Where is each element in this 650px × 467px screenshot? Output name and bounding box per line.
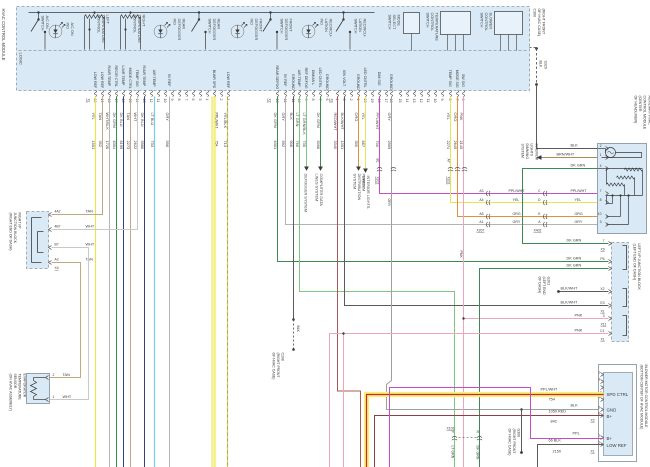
svg-text:L/AIR TEMP: L/AIR TEMP — [121, 66, 125, 87]
svg-text:G306: G306 — [517, 429, 521, 438]
svg-text:8: 8 — [311, 99, 315, 101]
wire DK BLU 5986 — [144, 97, 146, 467]
svg-text:12: 12 — [283, 99, 287, 103]
svg-text:B7: B7 — [55, 243, 59, 247]
svg-text:3: 3 — [342, 99, 346, 101]
svg-text:7: 7 — [600, 189, 602, 193]
svg-text:X202: X202 — [376, 177, 380, 185]
svg-text:13: 13 — [142, 99, 146, 103]
wire DK GRN aux pin 4 to junction pin 7 — [523, 169, 609, 244]
svg-text:BLOWER MOTOR CONTROL MODULE: BLOWER MOTOR CONTROL MODULE — [644, 365, 648, 429]
wire WHT 2622 to junction 4B7 — [52, 97, 138, 230]
svg-text:(RIGHT END OF DASH): (RIGHT END OF DASH) — [9, 213, 13, 251]
svg-text:X2: X2 — [600, 287, 604, 291]
svg-text:TAN: TAN — [86, 258, 94, 262]
svg-text:CONTROL: CONTROL — [484, 13, 488, 32]
svg-text:X11: X11 — [601, 323, 607, 327]
svg-text:DIMMING: DIMMING — [525, 144, 529, 160]
wire DK GRN third to junction — [480, 269, 609, 467]
svg-text:MODE: MODE — [397, 15, 401, 27]
svg-text:BLK/WHT: BLK/WHT — [561, 301, 579, 305]
svg-text:15: 15 — [128, 99, 132, 103]
svg-text:10: 10 — [163, 99, 167, 103]
wire ORG 300 to power distribution — [358, 97, 360, 167]
svg-text:SW SIG: SW SIG — [461, 74, 465, 87]
svg-text:X4: X4 — [55, 266, 59, 270]
LED front defogger indicator — [231, 25, 244, 38]
svg-text:5V REF: 5V REF — [283, 74, 287, 87]
svg-text:1: 1 — [53, 395, 55, 399]
svg-text:17: 17 — [384, 99, 388, 103]
svg-text:LOW REF: LOW REF — [100, 72, 104, 89]
svg-text:9: 9 — [170, 99, 174, 101]
svg-text:17: 17 — [114, 99, 118, 103]
svg-text:SELECT: SELECT — [392, 15, 396, 30]
svg-text:X1: X1 — [601, 310, 605, 314]
svg-text:E3: E3 — [600, 301, 604, 305]
svg-text:3: 3 — [598, 378, 600, 382]
svg-text:R/AIR TEMP: R/AIR TEMP — [107, 66, 111, 87]
svg-text:2622: 2622 — [133, 141, 138, 150]
wire BLK/WHT 1051 to junction E3 — [345, 97, 609, 306]
svg-text:REAR DEFOG: REAR DEFOG — [275, 66, 279, 90]
svg-text:300: 300 — [354, 141, 359, 148]
svg-text:4B7: 4B7 — [55, 225, 61, 229]
svg-text:1551: 1551 — [91, 141, 96, 150]
svg-text:LOW REF: LOW REF — [226, 72, 230, 89]
wire DK GRN 6301 to junction P6 — [278, 97, 609, 262]
wire LT GRN 766 corner to bottom — [300, 97, 455, 467]
svg-text:18: 18 — [377, 99, 381, 103]
svg-text:SWITCH: SWITCH — [41, 16, 45, 31]
switch A/C ON — [37, 11, 39, 13]
wire PPL/WHT 754 highlighted — [211, 97, 216, 467]
svg-text:10: 10 — [297, 99, 301, 103]
svg-text:YEL: YEL — [575, 198, 582, 202]
svg-text:TEMPERATURE: TEMPERATURE — [18, 374, 22, 401]
svg-text:DEFOGGER: DEFOGGER — [254, 19, 258, 41]
svg-text:X402: X402 — [534, 229, 542, 233]
svg-text:X2: X2 — [268, 99, 272, 103]
svg-text:A1: A1 — [479, 220, 483, 224]
svg-text:(LEFT END: (LEFT END — [542, 277, 546, 295]
wire BLK to aux module pin 2 — [537, 85, 609, 149]
svg-text:PPL/WHT: PPL/WHT — [509, 189, 526, 193]
svg-text:A/C ON: A/C ON — [45, 16, 49, 29]
LED rear defogger indicator — [154, 25, 167, 38]
svg-text:AIR TEMP: AIR TEMP — [297, 70, 301, 88]
svg-text:WHT/BLK: WHT/BLK — [105, 113, 110, 131]
wire YEL 2274 to aux module pin 8 — [451, 97, 609, 203]
svg-text:C300: C300 — [533, 9, 537, 18]
svg-text:ORG: ORG — [513, 212, 521, 216]
svg-text:DIM SIG: DIM SIG — [377, 72, 381, 86]
svg-text:FRONT: FRONT — [259, 19, 263, 33]
svg-text:16: 16 — [121, 99, 125, 103]
svg-text:GRY: GRY — [575, 220, 583, 224]
svg-text:PPL/WHT: PPL/WHT — [375, 113, 380, 131]
svg-text:598: 598 — [165, 141, 170, 148]
svg-text:X2: X2 — [591, 419, 595, 423]
wire DK BLU 6199 — [123, 97, 125, 467]
svg-text:DEFOGGER: DEFOGGER — [212, 19, 216, 41]
svg-text:X202: X202 — [447, 177, 451, 185]
svg-text:7: 7 — [603, 239, 605, 243]
wire YEL/BLK 713 — [227, 97, 229, 467]
svg-text:13: 13 — [412, 99, 416, 103]
svg-text:A3: A3 — [479, 189, 483, 193]
svg-text:(CENTER: (CENTER — [638, 96, 642, 112]
svg-text:YEL: YEL — [91, 113, 96, 121]
svg-text:2645: 2645 — [453, 141, 458, 150]
svg-text:DK GRN: DK GRN — [567, 239, 582, 243]
svg-text:G201: G201 — [547, 277, 551, 286]
left I/P junction block — [612, 243, 629, 342]
svg-text:OF DASH): OF DASH) — [538, 277, 542, 294]
svg-text:LATION: LATION — [358, 19, 362, 33]
svg-text:IND: IND — [66, 23, 70, 30]
svg-text:733: 733 — [150, 141, 155, 148]
svg-text:LOW REF: LOW REF — [607, 443, 627, 448]
svg-text:2: 2 — [349, 99, 353, 101]
LED recirculation indicator — [302, 25, 315, 38]
svg-text:P6: P6 — [600, 257, 604, 261]
svg-text:DEFOGGER: DEFOGGER — [284, 19, 288, 41]
svg-text:GROUND: GROUND — [325, 74, 329, 90]
HVAC control module U1 — [17, 7, 530, 91]
svg-text:5V REF: 5V REF — [167, 74, 171, 87]
svg-text:19: 19 — [370, 99, 374, 103]
svg-text:6: 6 — [325, 99, 329, 101]
svg-text:1: 1 — [600, 153, 602, 157]
svg-text:INTERIOR: INTERIOR — [534, 144, 538, 161]
svg-text:10: 10 — [433, 99, 437, 103]
svg-text:PNK: PNK — [575, 314, 583, 318]
svg-text:15: 15 — [398, 99, 402, 103]
svg-text:5986: 5986 — [140, 141, 145, 150]
svg-text:REF DEFOG: REF DEFOG — [304, 68, 308, 89]
svg-text:RIGHT: RIGHT — [142, 15, 146, 27]
svg-text:LATION: LATION — [324, 19, 328, 33]
svg-text:R/AIR TEMP: R/AIR TEMP — [142, 66, 146, 87]
svg-text:EVAPORATOR: EVAPORATOR — [22, 374, 26, 398]
svg-text:SENSOR: SENSOR — [13, 374, 17, 389]
svg-text:TAN: TAN — [126, 113, 131, 121]
wire LT GRN/BLK 735 to defogger system — [306, 97, 308, 167]
svg-text:TEMPERATURE: TEMPERATURE — [101, 15, 105, 44]
svg-text:1050 RED: 1050 RED — [549, 410, 567, 414]
svg-text:13: 13 — [275, 99, 279, 103]
switch recirculation — [342, 11, 344, 13]
svg-text:9: 9 — [440, 99, 444, 101]
wire LT BLU 733 — [154, 97, 156, 467]
svg-text:YEL/BLK: YEL/BLK — [223, 113, 228, 129]
svg-text:REAR: REAR — [182, 19, 186, 30]
svg-text:6199: 6199 — [119, 141, 124, 150]
svg-text:ORG: ORG — [575, 212, 583, 216]
svg-text:MODE SIG: MODE SIG — [455, 70, 459, 88]
svg-text:DK GRN: DK GRN — [273, 113, 278, 128]
svg-text:PNK: PNK — [459, 113, 464, 121]
svg-text:TEMPERATURE: TEMPERATURE — [435, 13, 439, 42]
right I/P junction block — [27, 212, 49, 269]
lamp in aux module — [606, 148, 616, 158]
svg-text:6304: 6304 — [112, 141, 117, 150]
wire DK GRN 5066 to computer data lines — [320, 97, 322, 167]
svg-text:20: 20 — [363, 99, 367, 103]
svg-text:10: 10 — [598, 212, 602, 216]
svg-text:SWITCH: SWITCH — [208, 19, 212, 34]
svg-text:7: 7 — [455, 99, 459, 101]
svg-text:4: 4 — [600, 164, 602, 168]
svg-text:4: 4 — [205, 99, 209, 101]
svg-text:YEL: YEL — [446, 113, 451, 121]
inline connector X202 — [377, 167, 382, 171]
svg-text:GROUND: GROUND — [356, 74, 360, 90]
svg-text:3: 3 — [603, 314, 605, 318]
svg-text:OF HVAC CASE): OF HVAC CASE) — [508, 429, 512, 456]
svg-text:3340: 3340 — [333, 141, 338, 150]
svg-text:6: 6 — [461, 99, 465, 101]
svg-text:352: 352 — [98, 141, 103, 148]
potentiometer left temperature control — [93, 11, 95, 13]
internal bus wire — [29, 12, 375, 14]
svg-text:842: 842 — [551, 420, 557, 424]
svg-text:IGN VOLT: IGN VOLT — [342, 70, 346, 87]
svg-text:CONTROL MODULE: CONTROL MODULE — [643, 96, 647, 130]
svg-text:SWITCH: SWITCH — [480, 13, 484, 28]
svg-text:(RIGHT FRONT: (RIGHT FRONT — [542, 9, 546, 35]
connector C300 black wire — [530, 47, 537, 49]
svg-text:8: 8 — [177, 99, 181, 101]
svg-text:AIR TEMP: AIR TEMP — [152, 70, 156, 88]
svg-text:FRONT: FRONT — [289, 19, 293, 33]
wire PPL/WHT 700 to aux module pin 7 — [380, 97, 609, 194]
svg-text:DK GRN: DK GRN — [476, 446, 480, 460]
svg-text:1051: 1051 — [340, 141, 345, 150]
svg-text:(RIGHT FRONT: (RIGHT FRONT — [276, 353, 280, 379]
svg-text:PPL/WHT: PPL/WHT — [541, 388, 559, 392]
svg-text:DK GRN: DK GRN — [112, 113, 117, 128]
wire BLK 908 with inline connector C208 — [293, 97, 295, 320]
svg-text:(LEFT END OF DASH): (LEFT END OF DASH) — [633, 244, 637, 281]
svg-text:SYSTEM: SYSTEM — [353, 174, 357, 190]
svg-text:TAN: TAN — [98, 113, 103, 121]
svg-text:(RIGHT FRONT: (RIGHT FRONT — [512, 429, 516, 455]
svg-text:BLK: BLK — [571, 404, 579, 408]
svg-text:2: 2 — [53, 373, 55, 377]
svg-text:7: 7 — [184, 99, 188, 101]
svg-text:16: 16 — [389, 99, 393, 103]
svg-text:LINES SYSTEM: LINES SYSTEM — [315, 174, 319, 202]
wire PNK branch — [343, 334, 345, 467]
svg-text:DK GRN: DK GRN — [567, 264, 582, 268]
logic sub-block — [19, 50, 528, 52]
svg-text:700: 700 — [375, 141, 380, 148]
svg-text:2: 2 — [219, 99, 223, 101]
svg-text:PPL/WHT: PPL/WHT — [214, 113, 218, 130]
svg-text:66 BLK: 66 BLK — [549, 439, 562, 443]
evaporator temperature sensor RT1 — [27, 374, 50, 404]
svg-text:2: 2 — [600, 144, 602, 148]
svg-text:BLK: BLK — [296, 326, 300, 333]
svg-text:7: 7 — [318, 99, 322, 101]
svg-text:DEFOGGER: DEFOGGER — [177, 19, 181, 41]
svg-text:2150: 2150 — [553, 450, 561, 454]
svg-text:592: 592 — [281, 141, 286, 148]
svg-text:HVAC CONTROL MODULE: HVAC CONTROL MODULE — [1, 9, 6, 61]
svg-text:B+: B+ — [607, 414, 613, 419]
svg-text:11: 11 — [156, 99, 160, 103]
wire TAN 352 to junction 4A2 — [52, 97, 103, 215]
svg-text:12: 12 — [419, 99, 423, 103]
svg-text:COMPUTER DATA: COMPUTER DATA — [319, 174, 323, 207]
svg-text:BLK: BLK — [539, 61, 543, 68]
svg-text:INTERIOR LIGHTS: INTERIOR LIGHTS — [366, 176, 370, 209]
auxiliary HVAC control module U2 — [598, 144, 647, 234]
svg-text:TEMPERATURE: TEMPERATURE — [137, 15, 141, 44]
svg-text:S329: S329 — [544, 61, 548, 69]
resistor network in aux module — [625, 168, 643, 171]
svg-text:DEFOGGER SYSTEM: DEFOGGER SYSTEM — [304, 174, 308, 212]
svg-text:5: 5 — [198, 99, 202, 101]
svg-text:DIM/AN L: DIM/AN L — [311, 70, 315, 86]
svg-text:BLOWER: BLOWER — [489, 13, 493, 30]
svg-text:BLWR SPD: BLWR SPD — [212, 70, 216, 89]
svg-text:BLK: BLK — [571, 144, 579, 148]
svg-text:YEL: YEL — [361, 113, 366, 121]
svg-text:YEL: YEL — [513, 198, 520, 202]
svg-text:6: 6 — [598, 412, 600, 416]
connector X207 — [486, 191, 490, 196]
svg-text:SYSTEM: SYSTEM — [362, 176, 366, 192]
svg-text:GRY: GRY — [513, 220, 521, 224]
svg-text:BLK/WHT: BLK/WHT — [340, 113, 345, 131]
svg-text:PNK: PNK — [575, 329, 583, 333]
wire PPL 66 to B+ — [390, 388, 604, 467]
wire YEL 687 to interior lights — [365, 97, 367, 169]
svg-text:RED/WHT: RED/WHT — [333, 113, 338, 132]
svg-text:2273: 2273 — [126, 141, 131, 150]
svg-text:4A2: 4A2 — [55, 210, 61, 214]
svg-text:1: 1 — [598, 434, 600, 438]
svg-text:GROUND: GROUND — [389, 74, 393, 90]
wire GRY 592 to aux module pin 3 — [286, 97, 609, 225]
wire WHT/BLK 1726 — [109, 97, 111, 467]
connector X103 — [452, 436, 457, 440]
svg-text:LOW REF: LOW REF — [93, 72, 97, 89]
svg-text:LED CNTRL: LED CNTRL — [318, 68, 322, 88]
svg-text:735: 735 — [302, 141, 307, 148]
svg-text:14: 14 — [135, 99, 139, 103]
svg-text:OF HVAC CASE): OF HVAC CASE) — [537, 9, 541, 37]
svg-text:PPL: PPL — [573, 432, 580, 436]
wire YEL 1551 — [95, 97, 97, 467]
svg-text:9: 9 — [304, 99, 308, 101]
svg-text:908: 908 — [289, 141, 294, 148]
svg-text:(BOTTOM CENTER OF HVAC MODULE): (BOTTOM CENTER OF HVAC MODULE) — [640, 365, 644, 430]
svg-text:OF HEADLINER): OF HEADLINER) — [634, 96, 638, 124]
svg-text:TAN: TAN — [63, 373, 71, 377]
svg-text:C208: C208 — [281, 353, 285, 361]
svg-text:A2: A2 — [55, 258, 59, 262]
svg-text:CONTROL: CONTROL — [133, 15, 137, 34]
wire PPL/WHT 754 highlighted to SPD CTRL — [367, 395, 604, 467]
svg-text:SWITCH: SWITCH — [388, 15, 392, 30]
potentiometer right temperature control — [129, 11, 131, 13]
svg-text:X1: X1 — [591, 450, 595, 454]
svg-text:LT GRN: LT GRN — [451, 446, 455, 459]
svg-text:18: 18 — [107, 99, 111, 103]
svg-text:SYSTEM: SYSTEM — [521, 144, 525, 158]
svg-text:WHT: WHT — [86, 225, 95, 229]
wire ORG 2645 to aux module pin 10 — [458, 97, 609, 217]
svg-text:SWITCH: SWITCH — [280, 19, 284, 34]
wire GRY 2909 to blower GND — [387, 97, 599, 410]
svg-text:12: 12 — [149, 99, 153, 103]
svg-text:1: 1 — [356, 99, 360, 101]
svg-text:11: 11 — [426, 99, 430, 103]
svg-text:CONTROL: CONTROL — [430, 13, 434, 32]
svg-text:A7: A7 — [447, 159, 451, 163]
wire GRY 598 — [169, 97, 171, 467]
svg-text:WHT: WHT — [86, 243, 95, 247]
connector X402 — [543, 191, 547, 196]
svg-text:TEMP SIG: TEMP SIG — [448, 70, 452, 87]
svg-text:DK GRN: DK GRN — [571, 164, 586, 168]
blower motor control module U3 — [599, 365, 637, 462]
wire BLK/WHT ground splice — [559, 291, 609, 293]
wire PNK C1 from bottom — [330, 334, 609, 467]
svg-text:PNK: PNK — [459, 251, 463, 259]
svg-text:8: 8 — [448, 99, 452, 101]
wire RED/WHT 3340 — [338, 97, 361, 467]
svg-text:SPD CTRL: SPD CTRL — [607, 392, 629, 397]
svg-text:754: 754 — [549, 398, 555, 402]
svg-text:OF HVAC CASE): OF HVAC CASE) — [272, 353, 276, 380]
svg-text:LEFT I/P JUNCTION BLOCK: LEFT I/P JUNCTION BLOCK — [637, 244, 641, 291]
svg-text:GRY: GRY — [281, 113, 286, 122]
svg-text:JUNCTION BLOCK: JUNCTION BLOCK — [13, 213, 17, 244]
svg-text:14: 14 — [405, 99, 409, 103]
svg-text:DISTRIBUTION: DISTRIBUTION — [357, 174, 361, 201]
wire TAN 2273 — [130, 97, 132, 467]
switch front defogger — [269, 11, 271, 13]
svg-text:PPL/WHT: PPL/WHT — [571, 189, 588, 193]
svg-text:ORG: ORG — [453, 113, 458, 122]
svg-text:C1: C1 — [600, 329, 604, 333]
svg-text:713: 713 — [223, 141, 228, 148]
svg-text:2145: 2145 — [459, 141, 464, 150]
svg-text:DK GRN: DK GRN — [567, 257, 582, 261]
svg-text:DK BLU: DK BLU — [140, 113, 145, 127]
wire PNK 2145 to junction pin 3 — [463, 97, 465, 467]
wire BRN/WHT to interior lights dimming system — [537, 157, 609, 159]
svg-text:687: 687 — [361, 141, 366, 148]
svg-text:20: 20 — [93, 99, 97, 103]
svg-text:IND: IND — [250, 19, 254, 26]
svg-text:(ON HVAC ASSEMBLY): (ON HVAC ASSEMBLY) — [9, 374, 13, 411]
svg-text:B1: B1 — [376, 159, 380, 163]
svg-text:TAN: TAN — [86, 210, 94, 214]
svg-text:3: 3 — [600, 220, 602, 224]
svg-text:RECIR CTRL: RECIR CTRL — [114, 66, 118, 88]
svg-text:X9: X9 — [601, 248, 605, 252]
svg-text:19: 19 — [100, 99, 104, 103]
svg-text:1: 1 — [598, 371, 600, 375]
svg-text:TEMP SIG: TEMP SIG — [135, 70, 139, 87]
svg-text:GROUND: GROUND — [291, 74, 295, 90]
